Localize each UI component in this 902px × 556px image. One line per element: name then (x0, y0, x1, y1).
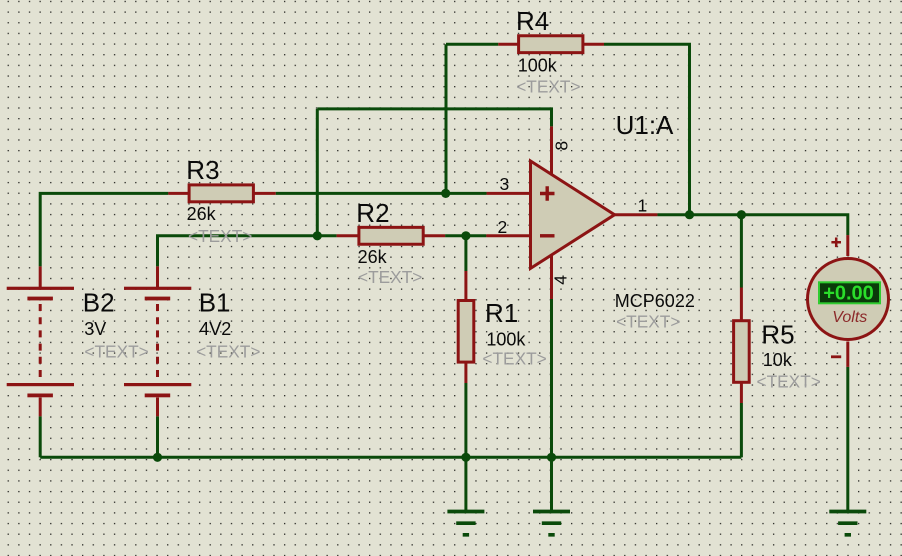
wire power rail top horizontal to pin8 (317, 109, 551, 127)
svg-text:4V2: 4V2 (199, 319, 231, 339)
wire R2 right to op-amp pin2 (445, 234, 486, 237)
ground (voltmeter branch) (829, 512, 866, 535)
battery B2 (7, 287, 74, 417)
junction R1 bottom on rail (461, 453, 470, 462)
svg-text:<TEXT>: <TEXT> (616, 312, 680, 332)
op-amp U1 pin3 lead (487, 192, 531, 195)
resistor R4 (519, 36, 583, 53)
wire R1 rail to ground (464, 457, 467, 511)
svg-text:100k: 100k (486, 329, 526, 349)
battery B1 top lead (156, 266, 159, 287)
voltmeter bottom lead (846, 342, 849, 367)
wire R4 left vertical drop to pin3 node (445, 44, 448, 193)
wire R1 top (464, 236, 467, 271)
svg-text:+0.00: +0.00 (823, 283, 874, 305)
resistor R2 (359, 227, 423, 244)
svg-text:R5: R5 (761, 319, 794, 349)
junction pin3/R4 node (441, 189, 450, 198)
svg-text:<TEXT>: <TEXT> (516, 76, 580, 96)
svg-text:<TEXT>: <TEXT> (482, 349, 546, 369)
svg-text:B2: B2 (83, 287, 115, 317)
junction R1 top (461, 231, 470, 240)
wire B1 top to R2 left (158, 236, 337, 267)
svg-text:100k: 100k (518, 55, 558, 75)
svg-text:3: 3 (500, 174, 510, 194)
junction power branch on R2 wire (313, 231, 322, 240)
svg-text:R4: R4 (516, 6, 549, 36)
svg-text:3V: 3V (84, 319, 106, 339)
junction B1 bottom on rail (153, 453, 162, 462)
op-amp U1 pin4 lead (550, 252, 553, 299)
battery B1 (124, 287, 191, 417)
wire R4 right to output node (604, 44, 690, 213)
wire bottom rail (40, 456, 741, 459)
wire R5 top (740, 215, 743, 288)
wire R4 left horizontal (446, 43, 498, 46)
resistor R1 (458, 301, 474, 363)
svg-text:R2: R2 (356, 198, 389, 228)
ground (R1 branch) (447, 512, 484, 535)
svg-text:<TEXT>: <TEXT> (188, 226, 252, 246)
wire B2 bottom to rail (39, 416, 42, 457)
op-amp plus mark (540, 186, 555, 200)
svg-text:4: 4 (551, 275, 571, 285)
svg-text:MCP6022: MCP6022 (615, 291, 695, 311)
svg-text:<TEXT>: <TEXT> (196, 342, 260, 362)
resistor R5 leads (740, 288, 743, 404)
svg-text:<TEXT>: <TEXT> (358, 267, 422, 287)
wire B1 bottom to rail (156, 416, 159, 457)
resistor R3 (189, 185, 253, 202)
junction R4 right at output (685, 210, 694, 219)
op-amp U1 pin8 lead (550, 126, 553, 178)
svg-text:26k: 26k (358, 247, 388, 267)
svg-text:<TEXT>: <TEXT> (757, 371, 821, 391)
svg-text:B1: B1 (199, 287, 231, 317)
svg-text:R3: R3 (186, 155, 219, 185)
op-amp minus mark (540, 234, 555, 237)
voltmeter plus mark (831, 238, 841, 248)
wire R5 bottom to rail (740, 403, 743, 457)
wire B2 top to R3 left (40, 193, 168, 266)
resistor R2 leads (337, 234, 446, 237)
op-amp U1 pin1 output lead (613, 213, 657, 216)
svg-text:26k: 26k (187, 204, 217, 224)
wire voltmeter bottom to ground (846, 367, 849, 512)
resistor R4 leads (498, 43, 604, 46)
voltmeter top lead (846, 235, 849, 256)
voltmeter body (808, 259, 889, 340)
svg-text:R1: R1 (485, 298, 518, 328)
voltmeter minus mark (831, 355, 841, 358)
junction pin4 on rail (547, 453, 556, 462)
svg-text:Volts: Volts (832, 309, 867, 326)
ground (pin4 branch) (533, 512, 570, 535)
wire R3 right to op-amp pin3 (276, 192, 487, 195)
resistor R1 leads (464, 271, 467, 383)
voltmeter LCD (819, 282, 880, 303)
svg-text:U1:A: U1:A (616, 110, 674, 140)
wire power branch vertical to R2 node (316, 109, 319, 236)
resistor R5 (734, 321, 750, 383)
svg-text:<TEXT>: <TEXT> (84, 342, 148, 362)
svg-text:8: 8 (551, 141, 571, 151)
wire op-amp output to voltmeter (657, 215, 847, 235)
svg-text:1: 1 (638, 195, 648, 215)
svg-text:2: 2 (498, 217, 508, 237)
svg-text:10k: 10k (763, 350, 793, 370)
resistor R3 leads (168, 192, 275, 195)
op-amp U1:A (531, 161, 615, 268)
op-amp U1 pin2 lead (486, 234, 531, 237)
junction R5 top (737, 210, 746, 219)
wire R1 bottom to rail (464, 383, 467, 457)
battery B2 top lead (39, 266, 42, 287)
wire pin4 down to ground (550, 299, 553, 511)
